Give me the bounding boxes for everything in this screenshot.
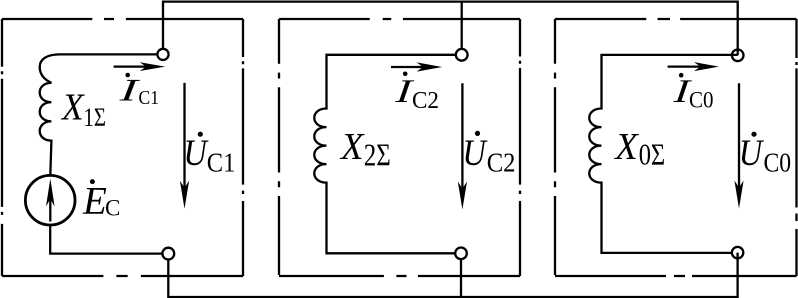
label U_C2 dot xyxy=(475,131,480,136)
voltage arrow U_C2 line xyxy=(461,83,463,189)
svg-text:1Σ: 1Σ xyxy=(84,103,107,132)
svg-text:C2: C2 xyxy=(412,87,439,114)
arrowhead I_C0 xyxy=(694,62,719,71)
svg-text:U: U xyxy=(184,133,209,174)
svg-text:C0: C0 xyxy=(764,147,792,177)
svg-text:X: X xyxy=(339,126,365,168)
label E_C dot xyxy=(90,179,95,184)
arrowhead U_C0 xyxy=(734,181,743,209)
svg-text:2Σ: 2Σ xyxy=(364,136,391,172)
current arrow I_C2 line xyxy=(391,66,424,68)
box 3 dash-dot frame left xyxy=(554,19,556,276)
arrowhead I_C1 xyxy=(140,62,166,71)
inductor X2 coil and wires xyxy=(314,55,456,254)
svg-text:U: U xyxy=(739,133,764,174)
box 2 dash-dot frame right xyxy=(519,19,521,276)
voltage arrow U_C0 line xyxy=(738,83,740,188)
source arrow line xyxy=(49,199,51,222)
label I_C2 dot xyxy=(403,72,408,77)
inductor X0 coil and wires xyxy=(589,55,737,253)
svg-text:U: U xyxy=(463,133,488,174)
box 1 dash-dot frame right xyxy=(242,19,244,276)
current arrow I_C1 line xyxy=(114,65,147,67)
svg-text:C1: C1 xyxy=(207,147,236,177)
wire source to bottom terminal xyxy=(50,225,162,254)
box 1 dash-dot frame bottom xyxy=(2,275,243,277)
node terminal box2 top xyxy=(456,49,468,61)
voltage arrow U_C1 line xyxy=(183,83,185,188)
wire bottom bus rise from box 2 terminal xyxy=(460,259,462,297)
svg-text:C: C xyxy=(105,196,120,221)
box 3 dash-dot frame bottom xyxy=(555,275,797,277)
label U_C0 dot xyxy=(751,132,756,137)
svg-text:C1: C1 xyxy=(139,87,160,109)
arrowhead U_C2 xyxy=(458,182,467,210)
arrowhead U_C1 xyxy=(180,181,189,209)
box 3 dash-dot frame top xyxy=(555,18,797,20)
node terminal box3 top xyxy=(732,50,744,62)
box 2 dash-dot frame bottom xyxy=(279,275,520,277)
node terminal box3 bottom xyxy=(732,247,743,258)
node terminal box2 bottom xyxy=(455,248,467,260)
svg-text:0Σ: 0Σ xyxy=(639,137,666,171)
box 1 dash-dot frame top xyxy=(2,18,243,20)
label I_C0 dot xyxy=(679,73,684,78)
arrowhead source E_C (up) xyxy=(46,179,55,207)
arrowhead I_C2 xyxy=(417,62,443,71)
svg-text:X: X xyxy=(613,126,639,168)
node terminal box1 top xyxy=(157,49,168,60)
current arrow I_C0 line xyxy=(668,65,701,67)
source E_C circle xyxy=(25,175,75,225)
bottom bus wire xyxy=(168,253,737,297)
wire top bus drop to box 2 terminal xyxy=(461,2,463,49)
box 3 dash-dot frame right xyxy=(795,19,797,276)
svg-text:E: E xyxy=(82,180,107,223)
inductor X1 coil and wires xyxy=(40,54,158,175)
node terminal box1 bottom xyxy=(162,248,174,260)
box 2 dash-dot frame left xyxy=(278,19,280,276)
label I_C1 dot xyxy=(125,73,130,78)
svg-text:C2: C2 xyxy=(487,147,516,177)
top bus wire xyxy=(163,2,738,56)
box 1 dash-dot frame left xyxy=(1,19,3,276)
svg-text:C0: C0 xyxy=(689,87,714,113)
label U_C1 dot xyxy=(198,132,203,137)
box 2 dash-dot frame top xyxy=(279,18,520,20)
svg-text:X: X xyxy=(60,86,85,128)
